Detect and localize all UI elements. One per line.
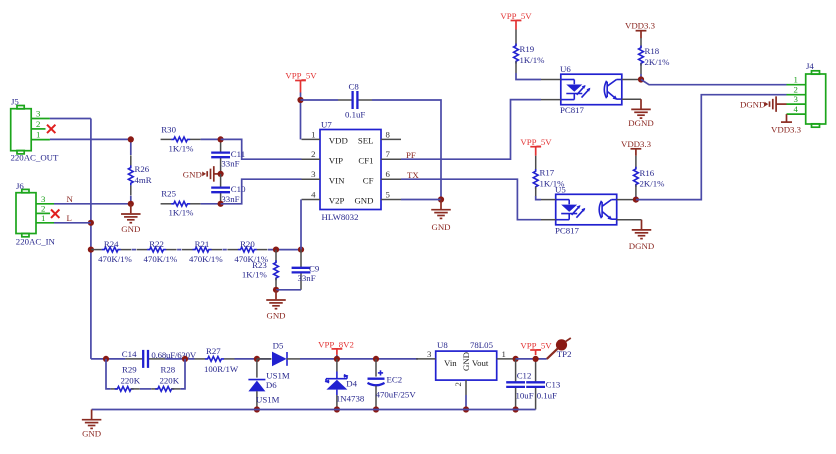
- optocoupler U5 PC817: [541, 185, 642, 236]
- svg-text:33nF: 33nF: [221, 194, 239, 204]
- junction U6 collector / R18: [638, 76, 644, 82]
- resistor R28: [151, 365, 180, 392]
- wire R17 to U5 anode: [536, 196, 541, 200]
- power VPP_5V at R19: [500, 11, 532, 30]
- svg-text:3: 3: [311, 169, 316, 179]
- resistor R26: [128, 139, 151, 203]
- resistor R22: [137, 239, 178, 264]
- svg-text:C13: C13: [546, 379, 561, 389]
- svg-text:J6: J6: [16, 181, 24, 191]
- junction D6 top: [254, 356, 260, 362]
- resistor R24: [91, 239, 132, 264]
- power VPP_8V2: [318, 340, 354, 355]
- wire TX from U7 CF to U5: [401, 179, 541, 220]
- wire N from J6 pin3 to R26 bottom: [54, 203, 131, 205]
- wire VPP node to C8: [301, 99, 339, 101]
- junction V2P / C9: [298, 247, 304, 253]
- svg-text:33nF: 33nF: [221, 159, 239, 169]
- junction C12 bottom: [513, 406, 519, 412]
- svg-text:7: 7: [386, 149, 391, 159]
- wire C11 node to U7 VIP: [221, 139, 302, 159]
- svg-text:L: L: [67, 213, 72, 223]
- wire U8 pin2 to bottom rail: [465, 395, 467, 410]
- wire C8 to GND corner: [372, 100, 441, 200]
- resistor R29: [111, 365, 141, 392]
- net label PF: [406, 150, 416, 160]
- net label TX: [407, 170, 419, 180]
- svg-text:VPP_5V: VPP_5V: [520, 137, 552, 147]
- wire U8 out to VPP_5V node: [516, 358, 547, 360]
- svg-text:470uF/25V: 470uF/25V: [376, 390, 417, 400]
- power VPP_5V at U8 output: [520, 340, 552, 355]
- svg-text:DGND: DGND: [740, 100, 765, 110]
- svg-text:R26: R26: [135, 164, 150, 174]
- svg-text:VIP: VIP: [329, 155, 343, 165]
- wire U6 collector to J4 pin1: [641, 80, 787, 85]
- svg-text:R29: R29: [122, 365, 137, 375]
- junction C14 branch left: [103, 356, 109, 362]
- capacitor C13: [526, 359, 561, 410]
- wire VPP node down to U7 VDD pin: [300, 93, 302, 140]
- svg-text:R30: R30: [161, 125, 176, 135]
- wire U7 V2P down to rail: [300, 200, 302, 250]
- ground GND at bottom rail: [82, 410, 102, 439]
- svg-text:CF1: CF1: [358, 155, 373, 165]
- svg-text:220AC_OUT: 220AC_OUT: [11, 152, 60, 162]
- svg-text:GND: GND: [461, 352, 471, 371]
- junction C14 branch right: [182, 356, 188, 362]
- svg-text:6: 6: [386, 169, 391, 179]
- junction C12 top: [513, 356, 519, 362]
- svg-text:VDD3.3: VDD3.3: [625, 21, 656, 31]
- svg-text:100R/1W: 100R/1W: [204, 364, 239, 374]
- svg-text:R18: R18: [645, 46, 660, 56]
- svg-text:N: N: [67, 194, 74, 204]
- ground DGND at J4 pin3: [740, 96, 787, 112]
- svg-text:4: 4: [311, 190, 316, 200]
- svg-text:VDD3.3: VDD3.3: [621, 139, 652, 149]
- svg-text:DGND: DGND: [628, 118, 653, 128]
- op-amp U7 HLW8032: [302, 120, 402, 222]
- capacitor C14: [122, 349, 197, 368]
- power VDD3.3 at R18: [625, 21, 656, 39]
- wire D5 to VPP_8V2 node: [300, 358, 340, 360]
- svg-text:1K/1%: 1K/1%: [169, 143, 195, 153]
- svg-text:GND: GND: [354, 196, 373, 206]
- ground GND below R26: [121, 204, 141, 234]
- resistor R20: [227, 239, 268, 264]
- svg-text:VPP_5V: VPP_5V: [285, 70, 317, 80]
- test point TP2: [547, 338, 572, 359]
- svg-text:J4: J4: [806, 61, 814, 71]
- svg-text:2K/1%: 2K/1%: [645, 57, 671, 67]
- svg-text:3: 3: [794, 94, 799, 104]
- svg-text:470K/1%: 470K/1%: [189, 254, 223, 264]
- svg-text:TP2: TP2: [557, 349, 572, 359]
- junction R23 top: [273, 247, 279, 253]
- junction U7 GND pin5: [438, 196, 444, 202]
- svg-text:470K/1%: 470K/1%: [144, 254, 178, 264]
- junction U5 collector / R16: [633, 197, 639, 203]
- junction R26 top: [128, 136, 134, 142]
- wire R30 to C11: [201, 138, 221, 140]
- resistor R30: [161, 125, 201, 154]
- svg-text:U8: U8: [437, 340, 448, 350]
- svg-text:VIN: VIN: [329, 175, 345, 185]
- svg-text:EC2: EC2: [387, 374, 403, 384]
- junction EC2 bottom: [373, 406, 379, 412]
- svg-text:VDD: VDD: [329, 136, 348, 146]
- svg-text:US1M: US1M: [266, 370, 290, 380]
- wire J5 pin3 to vertical L bus: [50, 118, 91, 120]
- junction C11 top: [218, 136, 224, 142]
- svg-text:0.1uF: 0.1uF: [345, 110, 365, 120]
- svg-text:VDD3.3: VDD3.3: [771, 124, 802, 134]
- svg-text:5: 5: [386, 190, 391, 200]
- svg-text:SEL: SEL: [358, 136, 374, 146]
- wire vertical L bus: [90, 119, 92, 359]
- power VPP_5V at U7 VDD: [285, 70, 317, 92]
- svg-text:J5: J5: [11, 97, 19, 107]
- svg-text:HLW8032: HLW8032: [322, 212, 359, 222]
- svg-text:R16: R16: [640, 168, 655, 178]
- resistor R25: [161, 188, 201, 217]
- wire C14 to R27: [165, 358, 194, 360]
- svg-text:C11: C11: [231, 149, 245, 159]
- svg-text:Vin: Vin: [444, 358, 457, 368]
- svg-text:R25: R25: [161, 188, 176, 198]
- svg-text:R22: R22: [149, 239, 164, 249]
- svg-text:CF: CF: [363, 175, 374, 185]
- svg-text:470K/1%: 470K/1%: [98, 254, 132, 264]
- svg-text:220AC_IN: 220AC_IN: [16, 236, 56, 246]
- resistor R18: [639, 38, 670, 74]
- capacitor C11: [211, 139, 245, 174]
- svg-text:D6: D6: [266, 380, 277, 390]
- junction L bus / J6 pin1: [88, 220, 94, 226]
- wire VPP node to EC2/U8: [340, 358, 418, 360]
- svg-text:US1M: US1M: [256, 395, 280, 405]
- svg-text:220K: 220K: [121, 375, 141, 385]
- svg-text:PC817: PC817: [555, 226, 580, 236]
- diode D6 US1M: [248, 359, 279, 410]
- junction R23/C9 bottom: [273, 287, 279, 293]
- connector J4: [787, 61, 826, 127]
- junction D6 bottom: [254, 406, 260, 412]
- svg-text:R17: R17: [540, 168, 555, 178]
- no-connect X on J6 pin 2: [51, 210, 59, 218]
- svg-text:220K: 220K: [160, 375, 180, 385]
- svg-text:R27: R27: [206, 346, 221, 356]
- svg-text:1: 1: [41, 213, 45, 223]
- power VDD3.3 at J4 pin4: [771, 114, 802, 134]
- capacitor EC2: [368, 359, 417, 410]
- svg-text:4: 4: [794, 104, 799, 114]
- junction D4 top: [334, 356, 340, 362]
- ground GND below R23: [266, 290, 286, 321]
- junction C11/C10 midpoint: [218, 171, 224, 177]
- resistor R19: [514, 30, 545, 74]
- wire R23 bottom to C9 bottom: [276, 289, 301, 291]
- wire bottom return rail: [92, 409, 536, 411]
- svg-text:78L05: 78L05: [470, 340, 494, 350]
- svg-text:R24: R24: [104, 239, 119, 249]
- connector J5: [11, 97, 60, 163]
- resistor R21: [182, 239, 223, 264]
- resistor R23: [242, 250, 279, 290]
- capacitor C9: [292, 250, 320, 290]
- wire PF from U7 CF1 to U6: [401, 100, 541, 160]
- svg-text:C12: C12: [517, 370, 532, 380]
- svg-text:2: 2: [311, 149, 315, 159]
- svg-text:GND: GND: [121, 224, 140, 234]
- net label L: [67, 213, 72, 223]
- ground DGND at U5 emitter: [629, 220, 654, 251]
- wire R18 to U6 collector: [640, 74, 642, 80]
- wire J5 pin1 to R26/R30: [50, 138, 131, 140]
- svg-text:4mR: 4mR: [135, 175, 152, 185]
- optocoupler U6 PC817: [541, 64, 641, 115]
- svg-text:D4: D4: [346, 379, 357, 389]
- svg-text:0.1uF: 0.1uF: [537, 390, 557, 400]
- svg-text:3: 3: [36, 109, 41, 119]
- svg-text:1N4738: 1N4738: [336, 393, 365, 403]
- diode D5 US1M: [257, 341, 300, 381]
- wire VPP_8V2 to rail: [336, 355, 338, 359]
- svg-text:2: 2: [36, 119, 40, 129]
- svg-text:1: 1: [311, 129, 315, 139]
- svg-text:R21: R21: [195, 239, 210, 249]
- junction EC2 top: [373, 356, 379, 362]
- capacitor C12: [506, 359, 533, 410]
- svg-text:PC817: PC817: [560, 105, 585, 115]
- wire J6 pin1 L: [54, 222, 91, 224]
- diode D4 1N4738 zener: [325, 359, 365, 410]
- svg-text:R28: R28: [161, 365, 176, 375]
- svg-text:C10: C10: [231, 184, 246, 194]
- ground GND at U7 pin5: [431, 200, 451, 233]
- svg-text:VPP_5V: VPP_5V: [500, 11, 532, 21]
- svg-text:C8: C8: [349, 81, 360, 91]
- svg-text:R19: R19: [520, 44, 535, 54]
- junction D4 bottom: [334, 406, 340, 412]
- regulator U8 78L05: [416, 340, 516, 395]
- capacitor C10: [211, 174, 246, 204]
- junction L bus / resistor rail: [88, 247, 94, 253]
- svg-text:8: 8: [386, 129, 391, 139]
- svg-text:2: 2: [453, 382, 463, 386]
- svg-text:GND: GND: [82, 429, 101, 439]
- svg-text:VPP_8V2: VPP_8V2: [318, 340, 354, 350]
- junction VPP/C8: [297, 97, 303, 103]
- resistor R27: [195, 346, 239, 374]
- svg-text:D5: D5: [273, 341, 284, 351]
- wire R27 to D5/D6 node: [235, 358, 272, 360]
- junction U8 pin2 bottom: [463, 406, 469, 412]
- ground DGND at U6 emitter: [628, 99, 653, 128]
- wire R16 to U5 collector: [635, 196, 637, 200]
- power VDD3.3 at R16: [621, 139, 652, 156]
- svg-text:V2P: V2P: [329, 196, 345, 206]
- svg-text:1: 1: [794, 75, 798, 85]
- svg-text:10uF: 10uF: [516, 390, 534, 400]
- svg-text:2K/1%: 2K/1%: [640, 179, 666, 189]
- wire R29/R28 branch: [106, 359, 185, 389]
- wire resistor rail R24-R20: [132, 249, 301, 251]
- svg-text:R20: R20: [240, 239, 255, 249]
- svg-text:1K/1%: 1K/1%: [520, 55, 546, 65]
- wire C10 node to U7 VIN: [221, 179, 302, 204]
- wire L bus corner to C14: [91, 358, 126, 360]
- svg-text:GND: GND: [431, 222, 450, 232]
- junction C10 bottom: [218, 201, 224, 207]
- junction C13 top: [533, 356, 539, 362]
- svg-text:DGND: DGND: [629, 241, 654, 251]
- svg-text:VPP_5V: VPP_5V: [520, 340, 552, 350]
- svg-text:33nF: 33nF: [298, 273, 316, 283]
- svg-text:C9: C9: [309, 263, 320, 273]
- svg-text:Vout: Vout: [472, 358, 489, 368]
- svg-text:1: 1: [36, 130, 40, 140]
- svg-text:U5: U5: [555, 185, 566, 195]
- junction R26 bottom: [128, 201, 134, 207]
- svg-text:1: 1: [502, 349, 506, 359]
- wire R25 to C10: [201, 203, 221, 205]
- wire U5 collector to J4 pin2: [636, 95, 787, 200]
- svg-text:U7: U7: [321, 120, 332, 130]
- svg-text:GND: GND: [183, 170, 202, 180]
- net label N: [67, 194, 74, 204]
- capacitor C8: [338, 81, 372, 119]
- wire R19 to U6 anode: [516, 73, 541, 80]
- resistor R16: [634, 156, 666, 196]
- resistor R17: [533, 156, 565, 196]
- no-connect X on J5 pin 2: [47, 125, 55, 133]
- svg-text:3: 3: [41, 194, 46, 204]
- svg-text:C14: C14: [122, 349, 137, 359]
- wire U7 pin5 to GND: [401, 199, 441, 201]
- svg-text:U6: U6: [560, 64, 571, 74]
- power VPP_5V at R17: [520, 137, 552, 156]
- connector J6: [16, 181, 56, 247]
- svg-text:3: 3: [427, 349, 432, 359]
- svg-text:1K/1%: 1K/1%: [169, 208, 195, 218]
- svg-text:GND: GND: [266, 310, 285, 320]
- svg-text:1K/1%: 1K/1%: [242, 270, 268, 280]
- ground GND at C11/C10 midpoint: [183, 166, 221, 182]
